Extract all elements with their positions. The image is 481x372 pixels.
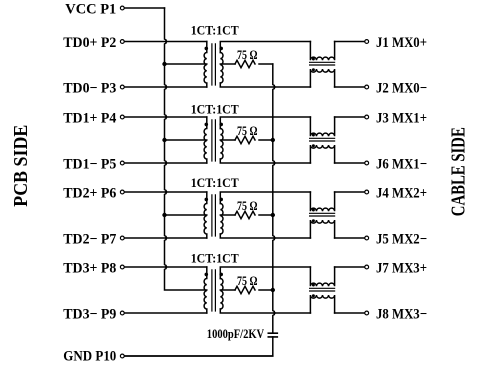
wire choke L3 bottom to terminal: [335, 237, 365, 239]
choke L2 bottom phase dot: [312, 144, 315, 147]
svg-text:TD1− P5: TD1− P5: [63, 157, 116, 173]
transformer T3 secondary phase dot: [219, 198, 223, 202]
svg-text:TD0− P3: TD0− P3: [63, 81, 116, 97]
wire crossing on common line: [273, 236, 276, 240]
choke L4 top winding: [310, 267, 334, 286]
svg-text:1CT:1CT: 1CT:1CT: [191, 251, 239, 266]
wire T1 secondary top to choke L1: [220, 42, 310, 53]
pin terminal TD1+ P4: [120, 115, 124, 119]
pin terminal TD3- P9: [120, 311, 124, 315]
wire crossing on VCC rail: [165, 190, 168, 194]
capacitor C1 1000pF/2KV plates: [268, 333, 277, 337]
wire crossing on VCC rail: [165, 40, 168, 44]
svg-text:GND P10: GND P10: [63, 349, 116, 365]
svg-text:J6 MX1−: J6 MX1−: [376, 157, 427, 173]
choke L1 top winding: [310, 42, 334, 61]
transformer T2 core: [212, 120, 216, 161]
svg-text:J1 MX0+: J1 MX0+: [376, 35, 427, 51]
svg-text:1000pF/2KV: 1000pF/2KV: [207, 329, 265, 342]
pin terminal J2 MX0-: [365, 85, 369, 89]
choke L1 top phase dot: [312, 58, 315, 61]
wire T3 secondary bottom to choke L3: [220, 234, 310, 238]
junction node common line / R4: [271, 288, 275, 292]
wire VCC P1 to VCC rail: [124, 7, 164, 9]
svg-text:75 Ω: 75 Ω: [237, 199, 258, 213]
wire T2 secondary center tap to resistor R2: [220, 139, 235, 141]
svg-text:TD2− P7: TD2− P7: [63, 232, 116, 248]
resistor R1 75 ohm: [235, 60, 255, 67]
wire resistor R2 to common node: [259, 139, 273, 141]
wire choke L1 bottom to terminal: [335, 86, 365, 88]
pin terminal J8 MX3-: [365, 311, 369, 315]
wire T1 secondary center tap to resistor R1: [220, 63, 235, 65]
choke L2 top winding: [310, 117, 334, 136]
wire choke L4 bottom to terminal: [335, 312, 365, 314]
junction node common line / R2: [271, 138, 275, 142]
wire choke L4 top to terminal: [335, 266, 365, 268]
wire GND P10 to capacitor bottom: [124, 355, 273, 357]
choke L2 bottom winding: [310, 145, 334, 163]
choke L3 top winding: [310, 192, 334, 211]
transformer T1 secondary winding: [220, 53, 223, 83]
wire T4 secondary bottom to choke L4: [220, 309, 310, 313]
wire T3 secondary center tap to resistor R3: [220, 214, 235, 216]
wire crossing on common line: [273, 85, 276, 89]
wire T4 secondary center tap to resistor R4: [220, 289, 235, 291]
choke L4 top phase dot: [312, 284, 315, 287]
transformer T3 primary winding: [204, 192, 207, 238]
transformer T2 primary winding: [204, 117, 207, 163]
label capacitor C1 value 1000pF/2KV: [207, 329, 265, 342]
wire crossing on common line: [273, 161, 276, 165]
wire resistor R1 to common node: [259, 63, 273, 65]
pin terminal J4 MX2+: [365, 190, 369, 194]
wire choke L1 top to terminal: [335, 41, 365, 43]
transformer T4 secondary winding: [220, 279, 223, 310]
svg-text:J5 MX2−: J5 MX2−: [376, 232, 427, 248]
junction node VCC rail / T3 tap: [162, 213, 166, 217]
choke L3 core: [310, 213, 335, 216]
svg-text:CABLE SIDE: CABLE SIDE: [448, 127, 470, 216]
wire T2 secondary bottom to choke L2: [220, 159, 310, 163]
pin terminal J1 MX0+: [365, 40, 369, 44]
svg-text:TD0+ P2: TD0+ P2: [63, 35, 116, 51]
wire common termination node to capacitor C1: [273, 64, 275, 333]
transformer T2 primary phase dot: [205, 123, 209, 127]
choke L3 top phase dot: [312, 209, 315, 212]
wire T4 secondary top to choke L4: [220, 267, 310, 279]
wire choke L2 top to terminal: [335, 116, 365, 118]
choke L1 bottom winding: [310, 69, 334, 87]
wire TD3+ P8 to transformer: [124, 266, 207, 268]
wire T2 secondary top to choke L2: [220, 117, 310, 129]
wire TD1- P5 to transformer: [124, 162, 207, 164]
wire T1 secondary bottom to choke L1: [220, 83, 310, 87]
wire crossing on VCC rail: [165, 85, 168, 89]
resistor R2 75 ohm: [235, 136, 255, 143]
svg-text:TD3+ P8: TD3+ P8: [63, 261, 116, 277]
pin terminal J7 MX3+: [365, 265, 369, 269]
resistor R3 75 ohm: [235, 211, 255, 218]
transformer T1 primary winding: [204, 42, 207, 88]
transformer T1 primary phase dot: [205, 47, 209, 51]
pin terminal J5 MX2-: [365, 236, 369, 240]
choke L2 top phase dot: [312, 134, 315, 137]
pin terminal TD0+ P2: [120, 40, 124, 44]
choke L2 core: [310, 138, 335, 141]
choke L1 bottom phase dot: [312, 68, 315, 71]
wire resistor R4 to common node: [259, 289, 273, 291]
svg-text:75 Ω: 75 Ω: [237, 274, 258, 288]
choke L4 core: [310, 288, 335, 291]
svg-text:J7 MX3+: J7 MX3+: [376, 261, 427, 277]
pin terminal TD2+ P6: [120, 190, 124, 194]
wire choke L3 top to terminal: [335, 191, 365, 193]
pin terminal J6 MX1-: [365, 161, 369, 165]
transformer T2 secondary winding: [220, 129, 223, 160]
transformer T4 core: [212, 270, 216, 311]
transformer T3 secondary winding: [220, 204, 223, 235]
choke L4 bottom winding: [310, 295, 334, 313]
transformer T2 secondary phase dot: [219, 123, 223, 127]
svg-text:J2 MX0−: J2 MX0−: [376, 81, 427, 97]
pin terminal GND P10: [120, 354, 124, 358]
wire resistor R3 to common node: [259, 214, 273, 216]
svg-text:PCB SIDE: PCB SIDE: [10, 125, 32, 207]
svg-text:1CT:1CT: 1CT:1CT: [191, 175, 239, 190]
transformer T4 primary winding: [204, 267, 207, 313]
wire crossing on VCC rail: [165, 265, 168, 269]
svg-text:1CT:1CT: 1CT:1CT: [191, 102, 239, 117]
wire choke L2 bottom to terminal: [335, 162, 365, 164]
wire TD0- P3 to transformer: [124, 86, 207, 88]
junction node common line / R3: [271, 213, 275, 217]
transformer T4 secondary phase dot: [219, 273, 223, 277]
junction node VCC rail / T1 tap: [162, 62, 166, 66]
wire TD1+ P4 to transformer: [124, 116, 207, 118]
wire TD3- P9 to transformer: [124, 312, 207, 314]
svg-text:VCC P1: VCC P1: [65, 2, 116, 18]
choke L3 bottom winding: [310, 220, 334, 238]
pin terminal VCC P1: [120, 6, 124, 10]
wire VCC rail to T1 primary center tap: [165, 63, 207, 65]
transformer T3 core: [212, 195, 216, 236]
transformer T1 core: [212, 44, 216, 85]
wire crossing on VCC rail: [165, 115, 168, 119]
svg-text:75 Ω: 75 Ω: [237, 48, 258, 62]
svg-text:J4 MX2+: J4 MX2+: [376, 186, 427, 202]
transformer T4 primary phase dot: [205, 273, 209, 277]
svg-text:J8 MX3−: J8 MX3−: [376, 307, 427, 323]
pin terminal TD2- P7: [120, 236, 124, 240]
choke L4 bottom phase dot: [312, 294, 315, 297]
svg-text:TD1+ P4: TD1+ P4: [63, 111, 116, 127]
wire capacitor C1 to GND wire: [124, 337, 273, 356]
pin terminal J3 MX1+: [365, 115, 369, 119]
wire VCC rail to T3 primary center tap: [165, 214, 207, 216]
wire VCC rail: [165, 8, 207, 290]
junction node VCC rail / T2 tap: [162, 138, 166, 142]
wire TD2- P7 to transformer: [124, 237, 207, 239]
wire crossing on VCC rail: [165, 161, 168, 165]
svg-text:J3 MX1+: J3 MX1+: [376, 111, 427, 127]
wire VCC rail to T2 primary center tap: [165, 139, 207, 141]
pin terminal TD0- P3: [120, 85, 124, 89]
resistor R4 75 ohm: [235, 286, 255, 293]
svg-text:TD3− P9: TD3− P9: [63, 307, 116, 323]
choke L3 bottom phase dot: [312, 219, 315, 222]
svg-text:TD2+ P6: TD2+ P6: [63, 186, 116, 202]
svg-text:1CT:1CT: 1CT:1CT: [191, 22, 239, 37]
wire T3 secondary top to choke L3: [220, 192, 310, 204]
wire crossing on VCC rail: [165, 236, 168, 240]
pin terminal TD3+ P8: [120, 265, 124, 269]
wire TD0+ P2 to transformer: [124, 41, 207, 43]
pin terminal TD1- P5: [120, 161, 124, 165]
wire TD2+ P6 to transformer: [124, 191, 207, 193]
transformer T1 secondary phase dot: [219, 47, 223, 51]
wire crossing on common line: [273, 311, 276, 315]
transformer T3 primary phase dot: [205, 198, 209, 202]
choke L1 core: [310, 62, 335, 65]
svg-text:75 Ω: 75 Ω: [237, 124, 258, 138]
